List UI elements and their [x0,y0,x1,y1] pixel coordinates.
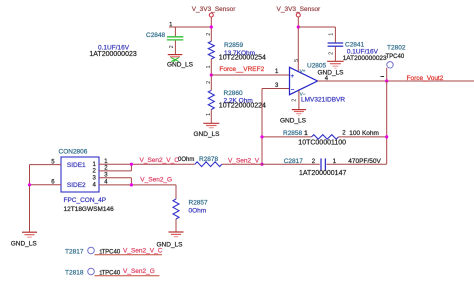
svg-text:FPC_CON_4P: FPC_CON_4P [64,197,107,204]
svg-text:10TC00001100: 10TC00001100 [298,139,346,146]
svg-text:T2817: T2817 [65,249,84,256]
svg-text:1: 1 [206,65,212,68]
svg-text:−: − [291,88,295,94]
svg-text:Force_Vout2: Force_Vout2 [407,75,444,82]
svg-text:1AT200000023: 1AT200000023 [89,51,136,58]
svg-text:V_Sen2_V: V_Sen2_V [228,158,260,165]
svg-text:V_Sen2_V_C: V_Sen2_V_C [140,157,180,164]
svg-text:GND_LS: GND_LS [167,62,194,69]
svg-text:5: 5 [294,59,300,62]
svg-text:470PF/50V: 470PF/50V [348,158,381,165]
svg-text:2: 2 [169,45,175,48]
svg-text:V_Sen2_G: V_Sen2_G [123,268,155,275]
svg-text:2: 2 [328,52,334,55]
svg-text:+: + [291,74,295,80]
svg-text:V_3V3_Sensor: V_3V3_Sensor [277,6,322,13]
svg-text:1AT200000023: 1AT200000023 [343,55,387,62]
svg-text:LMV321IDBVR: LMV321IDBVR [301,96,345,103]
svg-text:SIDE2: SIDE2 [67,182,86,189]
svg-text:1: 1 [169,22,172,28]
svg-text:2: 2 [206,81,212,84]
svg-text:C2817: C2817 [284,158,304,165]
svg-text:1AT200000147: 1AT200000147 [299,170,346,177]
svg-text:U2805: U2805 [307,62,327,69]
svg-text:10T220000254: 10T220000254 [219,55,266,62]
svg-text:C2848: C2848 [146,32,166,39]
svg-text:10T220000224: 10T220000224 [219,102,266,109]
svg-text:GND_LS: GND_LS [280,117,307,124]
svg-text:C2841: C2841 [345,42,365,49]
svg-text:SIDE1: SIDE1 [67,162,86,169]
svg-text:R2860: R2860 [224,90,244,97]
svg-text:2: 2 [206,33,212,36]
svg-text:100 Kohm: 100 Kohm [349,130,379,137]
svg-text:12T18GWSM146: 12T18GWSM146 [64,206,115,213]
svg-text:R2859: R2859 [224,42,244,49]
svg-text:1: 1 [206,113,212,116]
svg-text:V_3V3_Sensor: V_3V3_Sensor [192,6,237,13]
svg-text:GND_LS: GND_LS [194,131,221,138]
svg-text:R2858: R2858 [283,130,303,137]
svg-text:R2857: R2857 [189,200,209,207]
svg-text:0Ohm: 0Ohm [189,208,207,215]
svg-text:Force__VREF2: Force__VREF2 [219,66,264,73]
svg-text:CON2806: CON2806 [59,148,88,155]
svg-text:V_Sen2_G: V_Sen2_G [140,176,172,183]
svg-text:T2818: T2818 [65,270,84,277]
svg-text:V_Sen2_V_C: V_Sen2_V_C [123,248,163,255]
svg-text:T2802: T2802 [387,45,406,52]
svg-text:GND_LS: GND_LS [318,69,345,76]
svg-text:1: 1 [328,33,334,36]
svg-text:V+: V+ [300,69,306,74]
svg-text:2: 2 [291,99,297,102]
svg-text:TPC40: TPC40 [386,54,405,60]
svg-text:GND_LS: GND_LS [11,241,38,248]
svg-text:0Ohm: 0Ohm [178,157,194,163]
